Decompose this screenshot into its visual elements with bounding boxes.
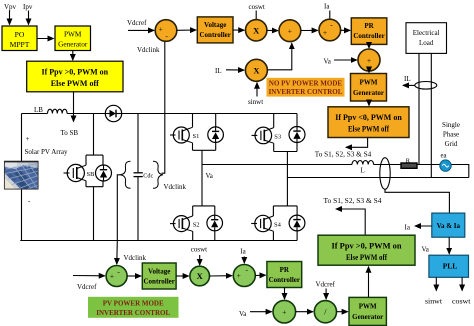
svg-text:If Ppv >0, PWM on: If Ppv >0, PWM on — [42, 68, 109, 77]
svg-text:MPPT: MPPT — [10, 40, 30, 49]
box PLL — [429, 255, 469, 277]
svg-text:+: + — [110, 271, 114, 280]
svg-text:Vdclink: Vdclink — [124, 254, 147, 262]
svg-text:Grid: Grid — [445, 140, 458, 148]
svg-text:X: X — [253, 26, 260, 36]
wire coswt into multiplier — [255, 11, 257, 20]
label S3 — [274, 134, 281, 141]
svg-text:+: + — [237, 271, 241, 280]
label + (PV) — [26, 135, 30, 143]
wire summer to PR Controller — [341, 29, 350, 31]
label LB — [34, 106, 43, 114]
svg-text:Phase: Phase — [443, 131, 459, 139]
transistor SB (MOSFET in circle) — [64, 164, 87, 181]
label Cdc — [143, 172, 153, 179]
CT ellipse around load legs — [415, 82, 437, 90]
wire left brace to bottom sense — [117, 175, 122, 241]
svg-text:To S1, S2, S3 & S4: To S1, S2, S3 & S4 — [324, 197, 383, 205]
wire PR Controller down to adder (green) — [284, 288, 286, 300]
wire Va into adder (green) — [250, 311, 272, 313]
svg-text:+: + — [282, 308, 286, 317]
label Vdcref (top) — [127, 19, 147, 27]
svg-text:To S1, S2, S3 & S4: To S1, S2, S3 & S4 — [315, 151, 372, 159]
summing junction (green, Ia) — [233, 265, 255, 287]
label coswt (bottom) — [191, 245, 207, 253]
transistor S4 block — [273, 206, 297, 241]
wire PWM Generator down to If box — [72, 51, 74, 61]
svg-text:Vdcref: Vdcref — [77, 283, 97, 291]
transistor S1 block — [193, 114, 216, 151]
label sinwt — [248, 98, 263, 106]
wire DC top rail continued — [67, 113, 297, 115]
svg-text:Va & Ia: Va & Ia — [437, 222, 461, 230]
svg-text:Va: Va — [422, 246, 430, 254]
svg-text:To SB: To SB — [61, 129, 79, 137]
wire Vdclink sense down into summer — [116, 241, 119, 265]
svg-text:If Ppv >0, PWM on: If Ppv >0, PWM on — [332, 242, 403, 251]
label SB — [87, 171, 96, 178]
label IL (input) — [215, 67, 222, 75]
diode S3 antiparallel — [289, 127, 305, 143]
box If Ppv>0 PWM on (green) — [318, 235, 415, 265]
wire DC top rail — [22, 113, 48, 115]
wire Vdcref into summer — [128, 29, 154, 31]
wire neutral return (S3S4 mid to grid) — [287, 177, 468, 179]
wire summer to PR Controller (green) — [255, 274, 265, 276]
summing junction (green, Vdclink) — [106, 266, 127, 287]
inductor L — [352, 161, 374, 165]
wire DC bottom rail — [20, 240, 297, 242]
svg-text:Voltage: Voltage — [204, 21, 226, 29]
svg-text:IL: IL — [215, 67, 222, 75]
wire Va&Ia down to PLL — [448, 237, 450, 254]
svg-text:PWM: PWM — [359, 303, 377, 311]
svg-text:Cdc: Cdc — [143, 172, 153, 179]
node Vpv label — [4, 3, 17, 11]
svg-text:INVERTER CONTROL: INVERTER CONTROL — [96, 309, 170, 317]
wire inductor to R — [374, 164, 401, 166]
svg-text:Electrical: Electrical — [413, 29, 440, 37]
wire Ia into summer (green) — [243, 257, 245, 264]
label S1 — [193, 133, 200, 140]
svg-text:PR: PR — [280, 266, 290, 274]
box PO MPPT — [2, 26, 37, 51]
svg-text:PV POWER MODE: PV POWER MODE — [103, 300, 164, 308]
wire load left leg — [418, 53, 420, 164]
wire S3-S4 midpoint — [286, 152, 288, 206]
box If Ppv>0 PWM on (boost) — [27, 61, 123, 92]
wire Voltage Controller to multiplier (green) — [176, 275, 189, 277]
svg-text:Solar PV Array: Solar PV Array — [25, 148, 69, 156]
svg-text:Controller: Controller — [353, 32, 384, 40]
summing junction (Ia, top) — [319, 19, 341, 41]
label coswt (top) — [249, 3, 265, 11]
svg-text:+: + — [288, 27, 292, 36]
svg-text:coswt: coswt — [249, 3, 265, 11]
multiplier X (green) — [190, 266, 210, 286]
svg-text:PLL: PLL — [443, 262, 458, 271]
resistor R — [401, 163, 417, 168]
svg-text:If Ppv <0, PWM on: If Ppv <0, PWM on — [335, 113, 402, 122]
svg-text:Vdcref: Vdcref — [127, 19, 147, 27]
wire adder to divider (green) — [296, 311, 313, 313]
capacitor Cdc plates — [134, 173, 143, 177]
svg-text:PO: PO — [15, 30, 25, 39]
svg-text:Controller: Controller — [144, 278, 175, 286]
svg-text:Ia: Ia — [240, 247, 246, 255]
wire PO MPPT to PWM Generator — [37, 38, 54, 40]
wire IL into multiplier — [226, 69, 244, 71]
box PWM Generator (top) — [351, 74, 387, 102]
label To S1 S2 S3 S4 (green chain) — [324, 197, 383, 205]
label Single Phase Grid — [442, 121, 460, 148]
summing junction (Vdcref-Vdclink, top) — [155, 20, 177, 42]
svg-text:INVERTER CONTROL: INVERTER CONTROL — [269, 88, 343, 96]
wire PLL sinwt output — [435, 277, 437, 290]
svg-text:Else PWM off: Else PWM off — [346, 253, 387, 262]
svg-text:Controller: Controller — [269, 276, 300, 284]
wire gate signal arrow from If box (orange) — [346, 138, 368, 148]
wire summer to Voltage Controller — [177, 29, 196, 31]
wire return loop right of ea — [451, 165, 469, 178]
svg-text:Va: Va — [239, 310, 247, 318]
box PR Controller (top) — [351, 18, 387, 45]
svg-text:Vdclink: Vdclink — [164, 183, 187, 191]
wire sinwt multiplier output up to adder — [268, 43, 292, 70]
wire Ia output arrow — [415, 225, 432, 227]
svg-text:Load: Load — [419, 39, 434, 47]
svg-text:Ia: Ia — [324, 3, 330, 11]
multiplier X (coswt, top) — [246, 20, 267, 41]
diode D1 (boost diode) — [105, 105, 121, 121]
wire sinwt into multiplier — [256, 83, 258, 97]
wire Vdcref into summer (green) — [73, 275, 105, 277]
label Vdclink (power) — [164, 183, 187, 191]
svg-text:Va: Va — [206, 172, 214, 180]
diode S2 antiparallel — [207, 215, 223, 231]
label NO PV POWER MODE INVERTER CONTROL — [267, 78, 345, 97]
svg-text:Else PWM off: Else PWM off — [348, 125, 389, 134]
AC source ea — [440, 160, 451, 171]
label - (PV) — [28, 197, 31, 205]
adder junction (top) — [279, 20, 301, 42]
wire divider to PWM Generator (green) — [337, 311, 348, 313]
label To S1 S2 S3 S4 (orange chain) — [315, 151, 372, 159]
divider junction (green) — [314, 301, 336, 323]
wire Vpv arrow into PO MPPT — [9, 11, 11, 25]
svg-text:S4: S4 — [274, 222, 282, 229]
brace left (Vdclink measurement) — [121, 161, 131, 188]
wire PLL coswt output — [461, 277, 463, 290]
wire adder to Ia summer — [301, 29, 318, 31]
capacitor Cdc branch wire — [137, 114, 139, 241]
label Vdcref (bottom left) — [77, 283, 97, 291]
label Vdclink (bottom) — [124, 254, 147, 262]
svg-text:+: + — [26, 135, 30, 143]
svg-text:coswt: coswt — [452, 298, 471, 306]
wire SB block frame — [86, 155, 103, 240]
wire IL measurement arrow — [403, 84, 415, 86]
wire Vdclink sense line from Cdc brace up to summer — [162, 41, 165, 173]
adder junction (Va, top) — [358, 49, 380, 71]
svg-text:Generator: Generator — [352, 313, 383, 321]
svg-text:Voltage: Voltage — [148, 268, 170, 276]
label Solar PV Array — [25, 148, 69, 156]
wire left rail (PV +) — [21, 114, 23, 241]
wire Ia/Va sense line to Va&Ia box — [385, 189, 449, 212]
wire Va into adder — [334, 59, 357, 61]
svg-text:Generator: Generator — [353, 89, 384, 97]
svg-text:X: X — [197, 271, 204, 281]
svg-text:Ipv: Ipv — [23, 3, 33, 11]
wire Ipv arrow into PO MPPT — [28, 11, 30, 25]
label S2 — [193, 222, 200, 229]
svg-text:+: + — [323, 28, 327, 37]
svg-text:Generator: Generator — [58, 40, 88, 49]
box Voltage Controller (top) — [197, 17, 233, 43]
transistor S3 block — [274, 114, 297, 152]
label Va (top) — [324, 58, 332, 66]
svg-text:NO PV POWER MODE: NO PV POWER MODE — [269, 80, 343, 88]
label Ia (bottom) — [240, 247, 246, 255]
svg-text:Vdcref: Vdcref — [316, 281, 336, 289]
diode S1 antiparallel — [208, 127, 224, 143]
svg-text:Controller: Controller — [200, 31, 231, 39]
label To SB — [61, 129, 79, 137]
label Vdcref (bottom right) — [316, 281, 336, 289]
label Vdclink (top) — [137, 46, 160, 54]
solar PV array photo — [4, 161, 39, 190]
label PV POWER MODE INVERTER CONTROL — [88, 297, 179, 318]
node Ipv label — [23, 3, 33, 11]
svg-text:+: + — [159, 24, 163, 33]
label coswt (PLL) — [452, 298, 471, 306]
wire AC output (Va) to grid — [202, 164, 352, 166]
svg-text:SB: SB — [87, 171, 96, 178]
svg-text:IL: IL — [404, 75, 411, 83]
box Va & Ia — [432, 213, 465, 237]
inductor LB — [48, 109, 68, 113]
wire multiplier to adder — [267, 29, 278, 31]
svg-text:S2: S2 — [193, 222, 200, 229]
label ea — [441, 153, 447, 160]
box PWM Generator (green) — [349, 297, 386, 325]
svg-text:Ia: Ia — [405, 224, 411, 232]
wire To SB arrow — [73, 92, 75, 122]
adder junction (green) — [273, 300, 296, 323]
svg-text:Vpv: Vpv — [4, 3, 17, 11]
wire PWM Generator to If box — [368, 101, 370, 106]
diode SB antiparallel — [96, 165, 112, 181]
wire PR Controller down to adder — [368, 44, 370, 48]
svg-text:Vdclink: Vdclink — [137, 46, 160, 54]
label Ia (top) — [324, 3, 330, 11]
label Va (measurement) — [422, 246, 430, 254]
svg-text:PWM: PWM — [64, 30, 82, 39]
wire Vdcref into divider — [325, 289, 327, 300]
wire coswt into multiplier (green) — [199, 255, 201, 265]
svg-text:L: L — [361, 167, 365, 175]
svg-text:coswt: coswt — [191, 245, 207, 253]
wire multiplier to Ia summer (green) — [210, 275, 232, 277]
box PR Controller (green) — [267, 262, 302, 288]
label Va (bottom) — [239, 310, 247, 318]
svg-text:sinwt: sinwt — [248, 98, 263, 106]
wire R to ea — [417, 164, 440, 166]
brace right (Vdclink measurement) — [153, 161, 163, 188]
wire Va node (S1-S2 midpoint) — [201, 150, 203, 206]
label Ia (measurement) — [405, 224, 411, 232]
diode S4 antiparallel — [289, 215, 305, 231]
svg-text:Va: Va — [324, 58, 332, 66]
box PWM Generator (MPPT) — [55, 26, 91, 51]
wire load right leg — [430, 53, 432, 177]
wire Ia into summer — [329, 11, 331, 20]
wire SB branch drop — [93, 114, 95, 156]
label L — [361, 167, 365, 175]
wire summer to Voltage Controller (green) — [127, 275, 141, 277]
wire gate signal arrow from green If box — [336, 209, 365, 235]
svg-text:S1: S1 — [193, 133, 200, 140]
svg-text:PWM: PWM — [360, 79, 378, 87]
svg-text:+: + — [367, 56, 371, 65]
label S4 — [274, 222, 282, 229]
label sinwt (PLL) — [425, 298, 442, 306]
label IL (measurement) — [404, 75, 411, 83]
svg-text:PR: PR — [364, 22, 374, 30]
wire PWM Generator up to If box (green) — [368, 267, 370, 297]
svg-text:S3: S3 — [274, 134, 281, 141]
box Electrical Load — [406, 23, 447, 54]
svg-text:sinwt: sinwt — [425, 298, 442, 306]
svg-text:Else PWM off: Else PWM off — [51, 79, 99, 88]
CT ellipse on AC line — [380, 158, 390, 190]
multiplier X (sinwt) — [245, 59, 267, 81]
transistor S2 block — [193, 206, 215, 241]
box If Ppv<0 PWM on (orange) — [328, 107, 409, 138]
svg-text:Single: Single — [442, 121, 460, 129]
svg-text:LB: LB — [34, 106, 43, 114]
wire Voltage Controller to multiplier — [233, 29, 244, 31]
svg-text:X: X — [253, 66, 260, 76]
box Voltage Controller (green) — [142, 263, 176, 289]
wire adder to PWM Generator — [368, 71, 370, 73]
label Va (node) — [206, 172, 214, 180]
svg-text:ea: ea — [441, 153, 447, 160]
label R — [406, 157, 411, 164]
